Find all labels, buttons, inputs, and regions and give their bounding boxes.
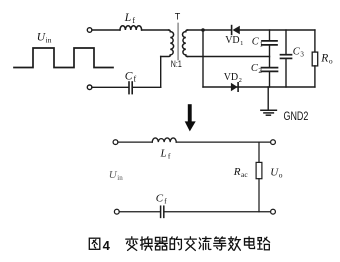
capacitor C2 bbox=[262, 67, 278, 69]
transformer core bbox=[177, 24, 179, 60]
ground GND2 symbol bbox=[267, 87, 269, 110]
wire top rail bbox=[118, 141, 152, 143]
wire bbox=[165, 211, 271, 213]
wire top rail after VD1 bbox=[240, 29, 315, 31]
inductor Lf (top circuit) bbox=[120, 26, 142, 30]
diode VD1 bbox=[231, 26, 233, 35]
caption 图4 变换器的交流等效电路 (drawn glyphs) bbox=[89, 237, 269, 251]
wire bbox=[176, 141, 270, 143]
diode VD2 bbox=[231, 83, 238, 91]
terminal lower-left top bbox=[113, 140, 118, 145]
terminal top-left input bbox=[87, 28, 92, 33]
terminal upper-right output bbox=[271, 140, 276, 145]
resistor Rac branch bbox=[258, 142, 260, 162]
svg-text:4: 4 bbox=[103, 238, 111, 253]
arrow (transform indicator) bbox=[185, 104, 196, 131]
wire bottom rail with VD2 bbox=[203, 86, 315, 88]
wire vertical from node down to VD2 rail bbox=[202, 30, 204, 87]
transformer T secondary winding bbox=[186, 30, 188, 32]
source Uin square waveform bbox=[14, 48, 113, 68]
wire bbox=[142, 29, 169, 31]
wire bbox=[133, 86, 161, 88]
terminal bottom-left input bbox=[87, 85, 92, 90]
capacitor C1 bbox=[262, 40, 277, 42]
terminal lower-left bottom bbox=[114, 209, 119, 214]
wire primary return down to Cf rail bbox=[160, 57, 162, 88]
resistor Ro branch bbox=[314, 30, 316, 52]
node junction dot bbox=[201, 28, 205, 32]
capacitor Cf (equivalent circuit) bbox=[160, 206, 162, 217]
svg-text:T: T bbox=[175, 12, 181, 22]
svg-text:N:1: N:1 bbox=[171, 59, 182, 69]
wire bottom rail bbox=[119, 211, 159, 213]
capacitor C3 branch bbox=[285, 30, 287, 55]
transformer T primary winding bbox=[169, 30, 171, 32]
capacitor Cf (top circuit) bbox=[128, 82, 130, 94]
capacitor C1 string vertical bbox=[269, 30, 271, 41]
wire bbox=[92, 29, 120, 31]
wire bbox=[92, 86, 128, 88]
terminal lower-right output bbox=[271, 209, 276, 214]
wire secondary top bbox=[188, 29, 231, 31]
inductor Lf (equivalent circuit) bbox=[152, 138, 176, 142]
wire middle rail (secondary bottom to C1C2 midpoint) bbox=[188, 56, 270, 58]
svg-text:GND2: GND2 bbox=[283, 111, 308, 123]
